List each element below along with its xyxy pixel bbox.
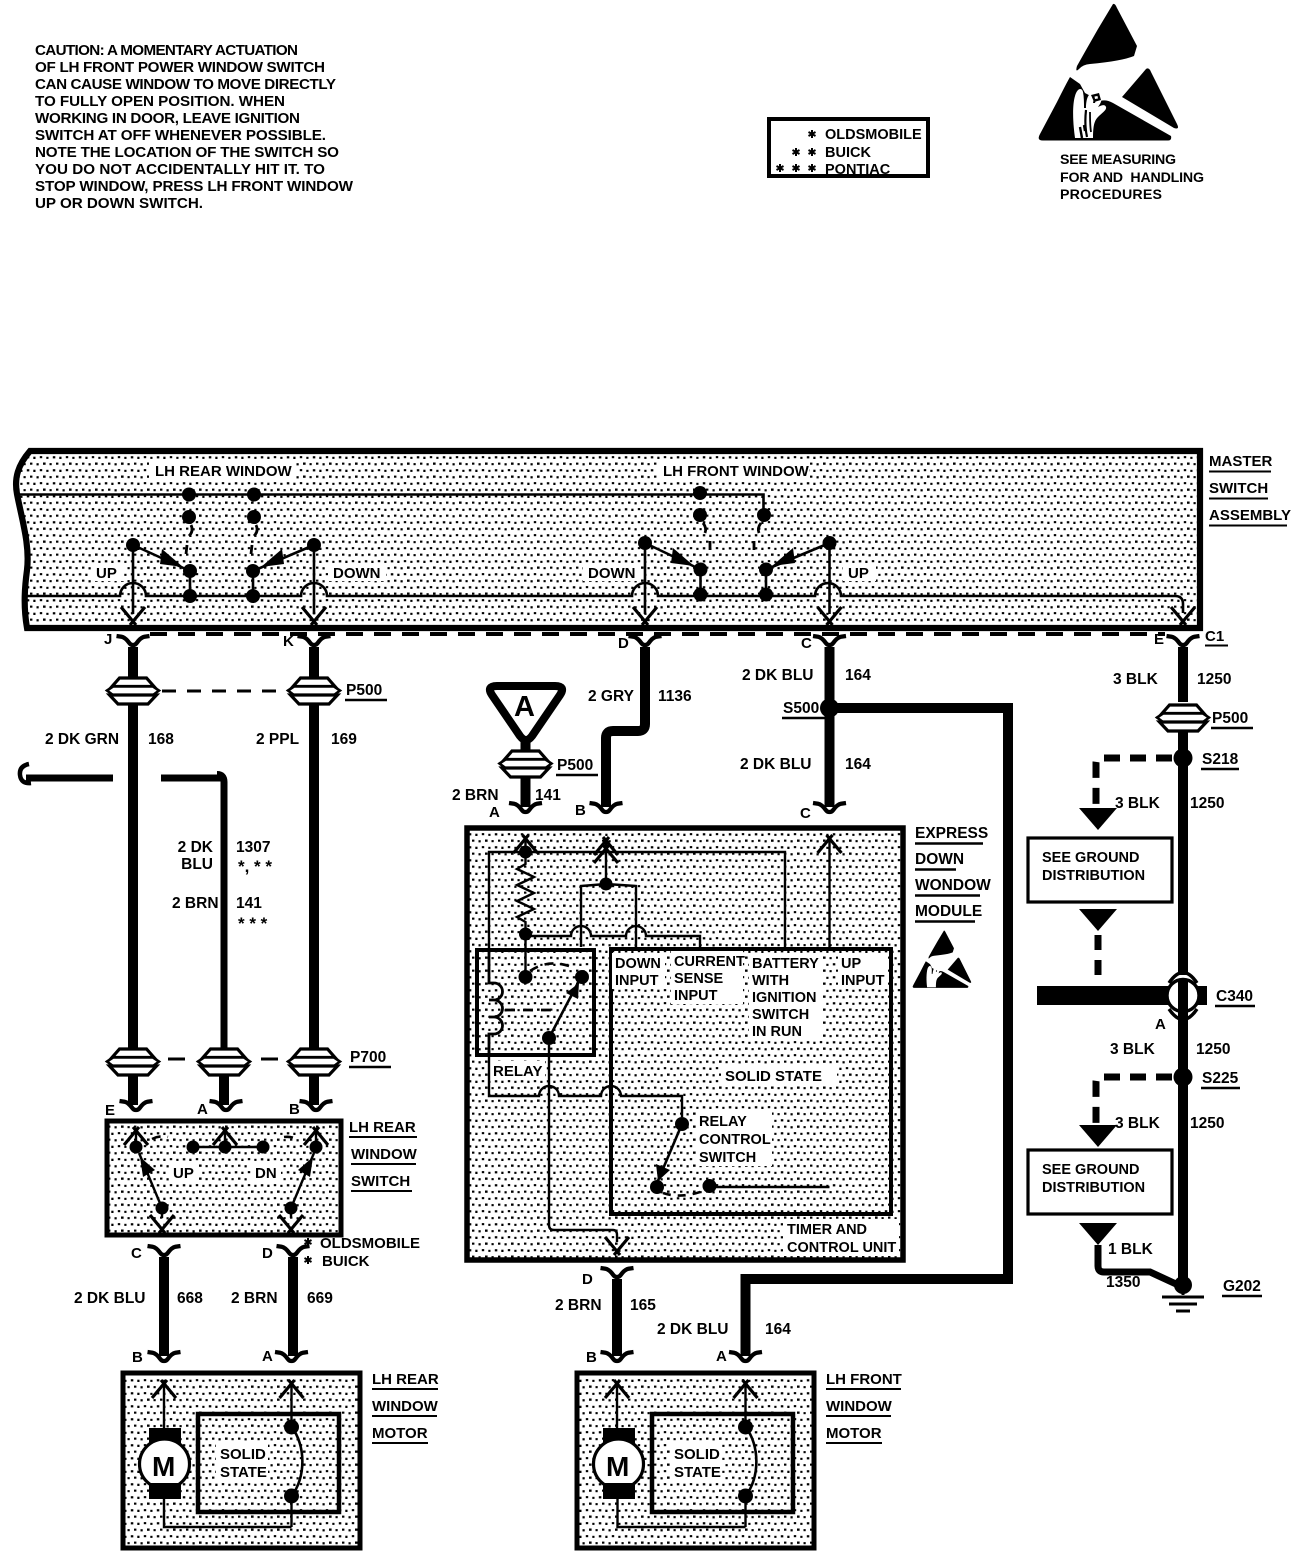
svg-text:PROCEDURES: PROCEDURES [1060,187,1162,203]
svg-text:WINDOW: WINDOW [826,1398,893,1415]
label 2 BRN 165 [555,1297,656,1314]
label 2 DK BLU 668 [74,1290,203,1307]
svg-text:YOU DO NOT ACCIDENTALLY HIT IT: YOU DO NOT ACCIDENTALLY HIT IT. TO [35,161,325,178]
label CURRENT SENSE INPUT [671,951,745,1004]
splice S225 [1174,1068,1241,1089]
label 2 DK BLU 164 (lower) [740,756,871,773]
svg-text:SOLID: SOLID [220,1446,266,1463]
relay contact (from resistor) [519,970,533,984]
svg-text:CONTROL: CONTROL [699,1132,771,1148]
svg-text:WINDOW: WINDOW [372,1398,439,1415]
terminal A (module) [489,803,542,821]
rear motor bottom wire [164,1499,292,1527]
svg-text:668: 668 [177,1290,203,1307]
module battery rail [526,852,786,947]
label DOWN [328,563,386,582]
label UP (front) [843,563,876,582]
ESD note text [1060,152,1204,203]
label RELAY [489,1061,545,1080]
label 2 DK BLU 164 (motor A) [657,1321,791,1338]
svg-text:1250: 1250 [1190,795,1224,812]
relay box [477,950,594,1055]
wire D to motor A [288,1257,298,1356]
rear switch terminal E lead [124,1127,148,1154]
svg-text:EXPRESS: EXPRESS [915,825,988,842]
front motor B lead [605,1380,629,1428]
see ground distribution box 1 [1028,838,1172,902]
terminal A (front motor) [716,1348,762,1365]
relay contact (down input side) [575,970,589,984]
svg-text:MOTOR: MOTOR [372,1425,428,1442]
svg-text:SEE GROUND: SEE GROUND [1042,850,1140,866]
off-page arrow below box 1 [1079,909,1117,977]
svg-text:IN RUN: IN RUN [752,1024,802,1040]
wire resistor to relay contact [524,940,526,971]
LH front window motor box [577,1373,814,1548]
svg-text:TIMER AND: TIMER AND [787,1222,867,1238]
label 2 BRN 141 (module A) [452,787,561,804]
svg-text:BLU: BLU [181,856,213,873]
svg-text:*, * *: *, * * [238,857,272,876]
svg-text:A: A [1155,1016,1166,1033]
wire: lower bus inside master switch [27,583,1183,613]
svg-text:CURRENT: CURRENT [674,954,745,970]
svg-text:LH REAR: LH REAR [372,1371,439,1388]
splice S500 [782,699,839,719]
svg-text:D: D [582,1271,593,1288]
wire S500 branch to front motor A [746,703,1014,1356]
wire armature to D out [549,1045,617,1242]
svg-text:B: B [575,802,586,819]
svg-text:SEE GROUND: SEE GROUND [1042,1162,1140,1178]
svg-text:2 DK: 2 DK [178,839,214,856]
svg-text:E: E [1154,631,1164,648]
svg-text:WITH: WITH [752,973,789,989]
wire K: P500 to P700 [309,703,319,1049]
LH front window switch contacts (master) [693,486,771,550]
rear switch terminal A lead [213,1127,237,1154]
svg-text:C340: C340 [1216,988,1253,1005]
wire coil to relay control switch [489,1051,682,1117]
svg-text:165: 165 [630,1297,656,1314]
module C input lead (up input) [818,835,842,1187]
express down window module box [467,828,903,1260]
svg-text:D: D [262,1245,273,1262]
svg-text:LH REAR WINDOW: LH REAR WINDOW [155,463,292,480]
label 2 BRN 141 [172,895,268,933]
ground G202 [1162,1276,1262,1311]
svg-text:CAN CAUSE WINDOW TO MOVE DIREC: CAN CAUSE WINDOW TO MOVE DIRECTLY [35,76,336,93]
svg-text:1250: 1250 [1190,1115,1224,1132]
svg-text:2 BRN: 2 BRN [555,1297,602,1314]
terminal J [104,631,150,648]
connector P700 grommet (B wire) [288,1049,340,1075]
label DOWN (front) [583,563,641,582]
svg-text:INPUT: INPUT [841,973,885,989]
relay control switch [650,1117,830,1196]
svg-text:STATE: STATE [220,1464,267,1481]
svg-text:2 DK BLU: 2 DK BLU [657,1321,728,1338]
svg-text:FOR AND HANDLING: FOR AND HANDLING [1060,170,1204,186]
connector P500 grommet (J wire) [107,678,159,704]
label UP INPUT [838,953,888,989]
LH rear window motor box [123,1373,360,1548]
svg-text:INPUT: INPUT [674,988,718,1004]
switch arm DOWN (LH front, D) [633,536,708,625]
wire J: P500 to P700 [128,703,138,1049]
label UP [91,563,124,582]
label LH REAR WINDOW MOTOR [372,1371,439,1443]
dashed branch S225 to ground distribution [1079,1077,1172,1147]
svg-text:3 BLK: 3 BLK [1113,671,1159,688]
module A input lead [514,835,538,859]
connector P500 grommet (breaker wire) [500,751,552,777]
svg-text:141: 141 [236,895,262,912]
svg-text:168: 168 [148,731,174,748]
rear switch common bar [187,1141,270,1154]
switch arm DOWN (LH rear, K) [246,538,326,625]
svg-text:UP: UP [173,1165,194,1182]
terminal A (rear switch) [197,1101,243,1118]
svg-text:RELAY: RELAY [493,1063,542,1080]
relay dashed throw arc [530,963,569,971]
terminal C (master) [801,635,846,652]
connector C1 dashed line [150,632,1165,636]
relay armature [542,979,580,1045]
off-page arrow into G202 [1079,1223,1176,1284]
connector P700 grommet (A wire) [198,1049,250,1075]
front motor M [594,1428,644,1499]
svg-text:2 PPL: 2 PPL [256,731,299,748]
label 3 BLK 1250 (below C340) [1110,1041,1230,1058]
svg-text:SWITCH: SWITCH [699,1150,756,1166]
label LH FRONT WINDOW [657,460,810,480]
svg-text:3 BLK: 3 BLK [1110,1041,1156,1058]
connector P700 grommet (E wire) [107,1049,159,1075]
svg-text:1136: 1136 [658,688,692,705]
svg-text:2 DK GRN: 2 DK GRN [45,731,119,748]
rear motor solid state box [198,1414,339,1512]
svg-text:UP: UP [96,565,117,582]
label 3 BLK 1250 (S225 branch) [1115,1115,1224,1132]
svg-text:RELAY: RELAY [699,1114,747,1130]
svg-text:SWITCH: SWITCH [351,1173,410,1190]
switch arm UP (LH front, C) [759,536,842,625]
LH rear window switch box [107,1121,341,1235]
terminal K [283,633,331,650]
terminal D (master) [618,635,662,652]
front motor A lead + breaker [734,1380,758,1527]
svg-text:B: B [132,1349,143,1366]
svg-text:OLDSMOBILE: OLDSMOBILE [825,127,922,143]
current sense line with jumps [526,926,701,947]
terminal B (front motor) [586,1349,634,1366]
svg-text:C: C [131,1245,142,1262]
label UP (rear switch) [169,1163,199,1182]
svg-text:LH FRONT WINDOW: LH FRONT WINDOW [663,463,810,480]
wire module D to front motor B [612,1279,622,1356]
svg-text:C: C [800,805,811,822]
terminal B (rear switch) [289,1101,333,1118]
svg-text:WINDOW: WINDOW [351,1146,418,1163]
svg-text:M: M [606,1451,629,1482]
svg-text:DOWN: DOWN [915,851,964,868]
svg-text:MOTOR: MOTOR [826,1425,882,1442]
label MASTER SWITCH ASSEMBLY [1209,453,1291,526]
rear switch dashes [152,1136,298,1140]
svg-text:MODULE: MODULE [915,903,982,920]
wire C340 to G202 [1178,1012,1188,1285]
label 3 BLK 1250 (top right) [1113,671,1231,688]
dashed branch S218 to ground distribution [1079,758,1172,830]
svg-text:STOP WINDOW, PRESS LH FRONT WI: STOP WINDOW, PRESS LH FRONT WINDOW [35,178,354,195]
terminal B (rear motor) [132,1349,181,1366]
wire J to P500 [128,647,138,679]
svg-text:IGNITION: IGNITION [752,990,816,1006]
svg-text:2 BRN: 2 BRN [231,1290,278,1307]
ESD warning symbol [1039,4,1178,141]
svg-text:3 BLK: 3 BLK [1115,1115,1161,1132]
svg-text:PONTIAC: PONTIAC [825,162,891,178]
svg-text:1307: 1307 [236,839,270,856]
label TIMER AND CONTROL UNIT [783,1219,899,1256]
svg-text:WONDOW: WONDOW [915,877,991,894]
label DOWN INPUT [612,953,665,989]
label DN (rear switch) [251,1163,281,1182]
wire: top feed bus inside master switch [17,495,764,513]
svg-text:SOLID STATE: SOLID STATE [725,1068,822,1085]
off-page hook wire [20,764,224,1049]
terminal C (rear switch) [131,1245,181,1262]
svg-text:* * *: * * * [238,914,268,933]
svg-text:G202: G202 [1223,1278,1261,1295]
rear switch terminal B lead [304,1127,328,1154]
connector P500 grommet (K wire) [288,678,340,704]
svg-text:OLDSMOBILE: OLDSMOBILE [320,1235,420,1252]
svg-text:DOWN: DOWN [333,565,381,582]
svg-text:2 GRY: 2 GRY [588,688,635,705]
label P500 (breaker) [556,757,598,775]
wire B into rear switch [309,1074,319,1105]
svg-text:BUICK: BUICK [825,145,871,161]
label SOLID STATE [721,1066,837,1085]
svg-text:2 BRN: 2 BRN [172,895,219,912]
wire P500 to C340 [1178,730,1188,975]
label 1 BLK 1350 [1106,1241,1154,1291]
svg-text:K: K [283,633,294,650]
svg-text:OF LH FRONT POWER WINDOW SWITC: OF LH FRONT POWER WINDOW SWITCH [35,59,325,76]
terminal A (rear motor) [262,1348,308,1365]
svg-text:INPUT: INPUT [615,973,659,989]
svg-text:C1: C1 [1205,628,1224,645]
svg-text:NOTE THE LOCATION OF THE SWITC: NOTE THE LOCATION OF THE SWITCH SO [35,144,339,161]
label 2 DK GRN 168 [45,731,174,748]
svg-text:A: A [716,1348,727,1365]
label 2 PPL 169 [256,731,357,748]
legend box (asterisk key) [769,119,928,178]
svg-text:1250: 1250 [1197,671,1231,688]
svg-text:SENSE: SENSE [674,971,723,987]
svg-text:BUICK: BUICK [322,1253,370,1270]
svg-text:UP: UP [848,565,869,582]
resistor (current sense shunt) [517,858,534,941]
svg-text:C: C [801,635,812,652]
svg-text:DOWN: DOWN [588,565,636,582]
svg-text:LH FRONT: LH FRONT [826,1371,902,1388]
label EXPRESS DOWN WONDOW MODULE [915,825,991,922]
svg-text:DN: DN [255,1165,277,1182]
relay mech dashed link [505,1009,556,1012]
wire K to P500 [309,647,319,679]
rear motor M [140,1428,190,1499]
svg-text:P500: P500 [557,757,593,774]
label P700 [349,1049,391,1067]
svg-text:DOWN: DOWN [615,956,661,972]
svg-text:164: 164 [845,756,871,773]
label LH FRONT WINDOW MOTOR [826,1371,902,1443]
front motor bottom wire [618,1499,746,1527]
label RELAY CONTROL SWITCH [696,1111,772,1166]
svg-text:2 BRN: 2 BRN [452,787,499,804]
terminal C (module) [800,803,846,822]
label LH REAR WINDOW [149,460,296,480]
svg-text:CAUTION: A MOMENTARY ACTUATION: CAUTION: A MOMENTARY ACTUATION [35,42,298,59]
terminal E (rear switch) [105,1101,153,1119]
svg-text:SEE MEASURING: SEE MEASURING [1060,152,1176,168]
svg-text:164: 164 [845,667,871,684]
svg-text:J: J [104,631,112,648]
svg-text:164: 164 [765,1321,791,1338]
svg-text:A: A [489,804,500,821]
rear switch UP arm [139,1153,174,1233]
label 2 GRY 1136 [588,688,692,705]
svg-text:TO FULLY OPEN POSITION. WHEN: TO FULLY OPEN POSITION. WHEN [35,93,285,110]
see ground distribution box 2 [1028,1150,1172,1214]
label P500 (right) [1211,710,1253,728]
wire breaker to module A [521,776,531,807]
connector P500 grommet (right) [1157,705,1209,731]
svg-text:STATE: STATE [674,1464,721,1481]
LH rear window switch contacts (master) [182,488,261,555]
svg-text:A: A [514,691,535,723]
svg-text:M: M [152,1451,175,1482]
svg-text:MASTER: MASTER [1209,453,1273,470]
svg-text:UP: UP [841,956,861,972]
label LH REAR WINDOW SWITCH [349,1119,418,1191]
svg-text:S500: S500 [783,700,819,717]
svg-text:SWITCH: SWITCH [1209,480,1268,497]
caution note text [35,42,354,212]
terminal B (module) [575,802,623,819]
circuit breaker A symbol [490,686,562,752]
wire A into rear switch [219,1074,229,1105]
svg-text:A: A [262,1348,273,1365]
svg-text:D: D [618,635,629,652]
svg-text:P500: P500 [1212,710,1248,727]
rear motor B lead [152,1380,176,1428]
svg-text:B: B [586,1349,597,1366]
svg-text:2 DK BLU: 2 DK BLU [740,756,811,773]
svg-text:WORKING IN DOOR, LEAVE IGNITIO: WORKING IN DOOR, LEAVE IGNITION [35,110,300,127]
svg-text:SWITCH: SWITCH [752,1007,809,1023]
connector P700 dashed links [168,1058,278,1061]
svg-text:LH REAR: LH REAR [349,1119,416,1136]
connector P500 dashed link [162,690,285,693]
label 2 DK BLU 164 (upper) [742,667,871,684]
svg-text:DISTRIBUTION: DISTRIBUTION [1042,868,1145,884]
connector C340 [1037,973,1255,1020]
svg-text:S218: S218 [1202,751,1239,768]
svg-text:CONTROL UNIT: CONTROL UNIT [787,1240,896,1256]
module B input lead [594,837,618,891]
svg-text:1 BLK: 1 BLK [1108,1241,1154,1258]
front motor solid state box [652,1414,793,1512]
svg-text:BATTERY: BATTERY [752,956,819,972]
switch arm UP (LH rear, J) [121,538,197,625]
splice S218 [1174,749,1240,770]
svg-text:1350: 1350 [1106,1274,1140,1291]
label BATTERY WITH IGNITION SWITCH IN RUN [749,953,823,1041]
relay coil [489,952,503,1053]
label 3 BLK 1250 (S218 branch) [1115,795,1224,812]
svg-text:DISTRIBUTION: DISTRIBUTION [1042,1180,1145,1196]
terminal D (module out) [582,1268,634,1288]
rear motor A lead + breaker [280,1380,304,1527]
rear switch DN arm [279,1153,314,1233]
master switch assembly box [16,451,1200,628]
svg-text:3 BLK: 3 BLK [1115,795,1161,812]
wire C to motor B [159,1257,169,1356]
svg-text:UP OR DOWN SWITCH.: UP OR DOWN SWITCH. [35,195,203,212]
terminal E (master) [1154,631,1200,648]
label 2 DK BLU 1307 [178,839,273,876]
svg-text:ASSEMBLY: ASSEMBLY [1209,507,1291,524]
wire E into rear switch [128,1074,138,1105]
svg-text:SOLID: SOLID [674,1446,720,1463]
svg-text:669: 669 [307,1290,333,1307]
svg-text:B: B [289,1101,300,1118]
terminal D (rear switch) [262,1245,310,1262]
svg-text:P500: P500 [346,682,382,699]
wire master C down [825,647,835,807]
svg-text:2 DK BLU: 2 DK BLU [742,667,813,684]
svg-text:S225: S225 [1202,1070,1239,1087]
label 2 BRN 669 [231,1290,333,1307]
svg-text:A: A [197,1101,208,1118]
wire E to P500 (right) [1178,647,1188,702]
svg-text:SWITCH AT OFF WHENEVER POSSIBL: SWITCH AT OFF WHENEVER POSSIBLE. [35,127,326,144]
svg-text:2 DK BLU: 2 DK BLU [74,1290,145,1307]
module coil rail [489,852,526,952]
svg-text:P700: P700 [350,1049,386,1066]
svg-text:169: 169 [331,731,357,748]
label P500 [345,682,387,700]
svg-text:E: E [105,1102,115,1119]
label OLDSMOBILE BUICK (asterisk note) [305,1235,421,1270]
svg-text:1250: 1250 [1196,1041,1230,1058]
solid state box [611,949,891,1214]
down input branch [581,884,636,947]
wire master D to module B [606,647,645,807]
small ESD symbol (module) [913,931,972,988]
wire: bus drop to E with arrow [1171,607,1195,625]
